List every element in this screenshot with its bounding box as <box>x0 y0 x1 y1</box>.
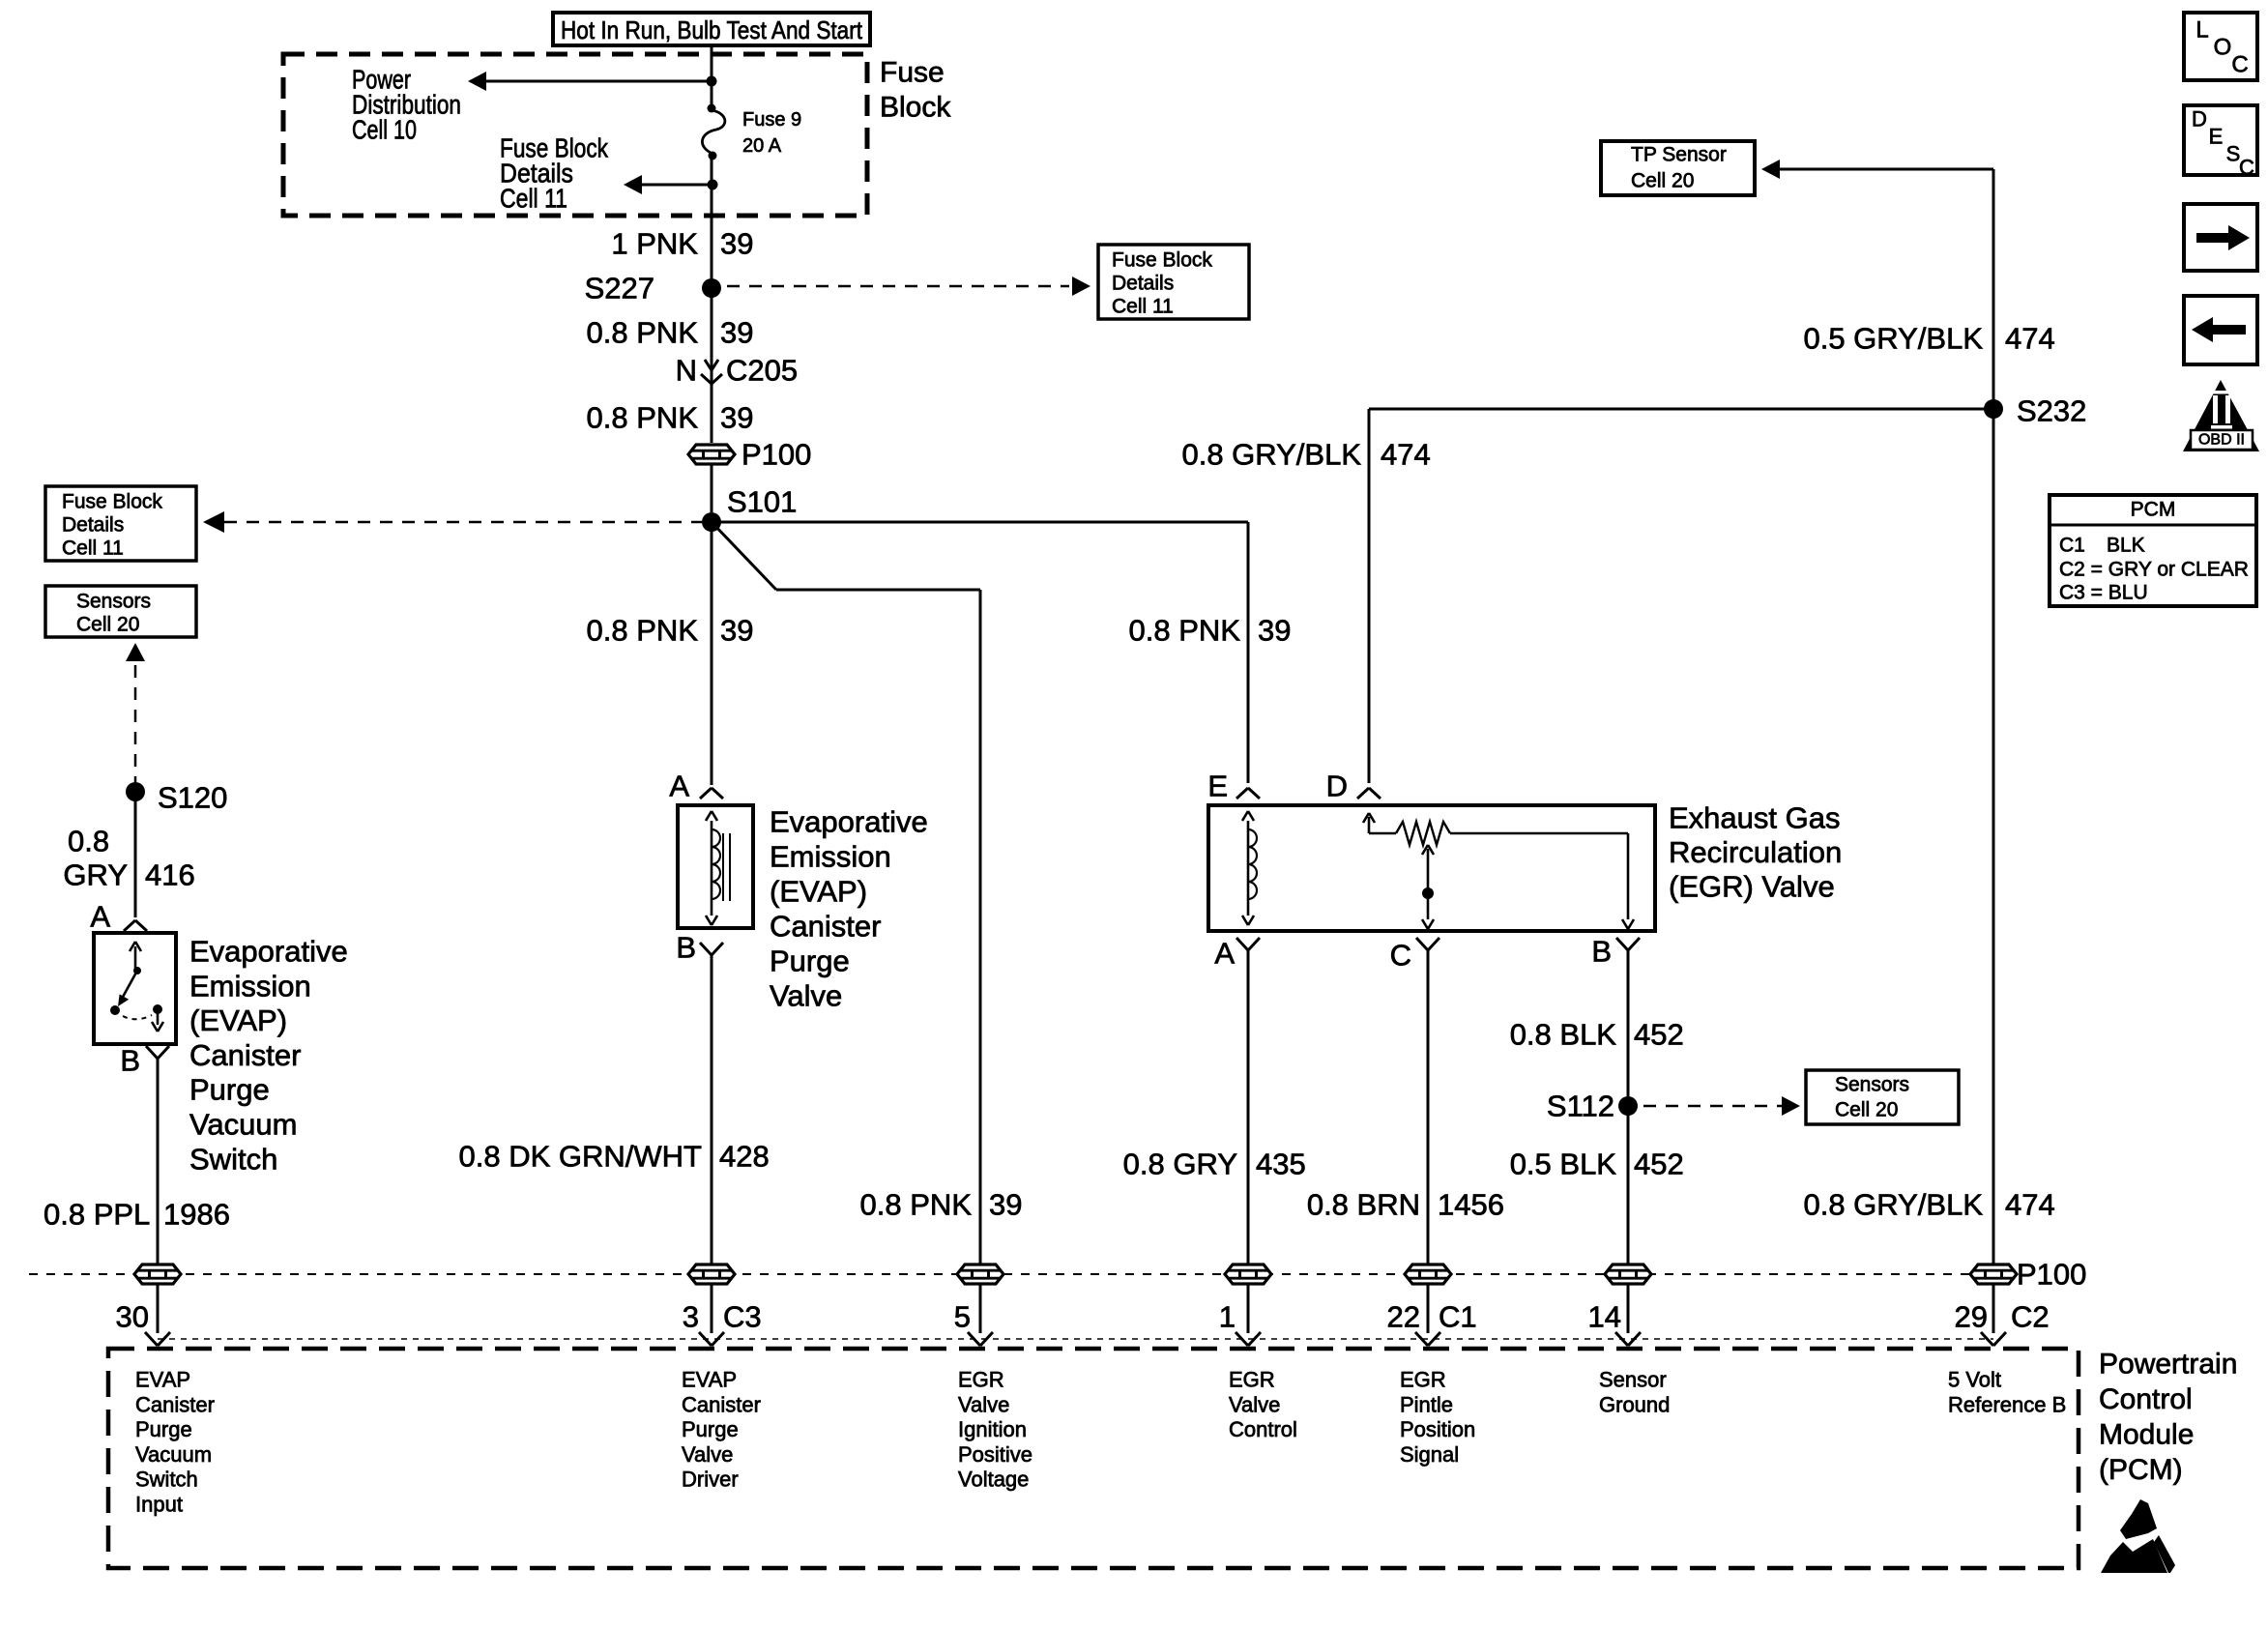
svg-text:Sensors: Sensors <box>1835 1074 1909 1096</box>
svg-text:Emission: Emission <box>770 840 891 874</box>
svg-text:Canister: Canister <box>189 1038 301 1072</box>
svg-text:3: 3 <box>683 1300 699 1334</box>
svg-text:C: C <box>2239 156 2254 180</box>
svg-text:C1: C1 <box>1439 1300 1477 1334</box>
svg-text:Block: Block <box>880 92 951 124</box>
svg-text:Signal: Signal <box>1400 1442 1459 1467</box>
svg-text:Valve: Valve <box>1229 1392 1280 1416</box>
svg-text:EGR: EGR <box>1229 1368 1275 1392</box>
svg-text:C2: C2 <box>2011 1300 2050 1334</box>
svg-text:EVAP: EVAP <box>682 1368 737 1392</box>
svg-text:S232: S232 <box>2017 394 2086 428</box>
svg-text:Position: Position <box>1400 1417 1475 1441</box>
svg-text:5 Volt: 5 Volt <box>1948 1368 2001 1392</box>
svg-text:A: A <box>90 900 110 934</box>
svg-text:0.8 PNK: 0.8 PNK <box>860 1188 973 1222</box>
svg-text:D: D <box>1326 770 1348 803</box>
svg-text:0.8 PNK: 0.8 PNK <box>587 316 699 350</box>
svg-text:452: 452 <box>1634 1018 1684 1052</box>
svg-text:EVAP: EVAP <box>135 1368 190 1392</box>
svg-text:39: 39 <box>720 614 753 648</box>
svg-text:S101: S101 <box>727 485 797 519</box>
svg-text:0.5 GRY/BLK: 0.5 GRY/BLK <box>1803 322 1983 356</box>
svg-text:B: B <box>1591 935 1612 969</box>
svg-text:Cell 20: Cell 20 <box>76 614 139 636</box>
svg-text:Voltage: Voltage <box>958 1468 1029 1492</box>
svg-text:Purge: Purge <box>135 1417 192 1441</box>
svg-text:(EVAP): (EVAP) <box>770 875 867 909</box>
svg-text:(PCM): (PCM) <box>2099 1454 2183 1486</box>
svg-text:S227: S227 <box>585 272 654 305</box>
svg-text:Ignition: Ignition <box>958 1417 1027 1441</box>
svg-text:Purge: Purge <box>770 945 850 978</box>
svg-text:EGR: EGR <box>958 1368 1004 1392</box>
svg-text:PCM: PCM <box>2131 499 2176 521</box>
svg-text:Vacuum: Vacuum <box>135 1442 212 1467</box>
svg-text:Valve: Valve <box>770 979 842 1013</box>
svg-text:474: 474 <box>1381 438 1431 472</box>
svg-text:Purge: Purge <box>189 1073 270 1107</box>
svg-text:39: 39 <box>720 316 753 350</box>
svg-text:E: E <box>1207 770 1228 803</box>
svg-text:P100: P100 <box>2017 1258 2086 1292</box>
svg-text:0.8 PPL: 0.8 PPL <box>44 1198 150 1232</box>
svg-text:B: B <box>676 931 696 965</box>
svg-text:Valve: Valve <box>682 1442 733 1467</box>
svg-text:Evaporative: Evaporative <box>189 935 348 969</box>
svg-text:Positive: Positive <box>958 1442 1032 1467</box>
svg-text:435: 435 <box>1256 1148 1306 1181</box>
svg-text:Canister: Canister <box>770 910 881 944</box>
svg-text:Canister: Canister <box>135 1392 215 1416</box>
svg-text:Recirculation: Recirculation <box>1669 835 1842 869</box>
svg-text:Details: Details <box>62 514 124 537</box>
svg-text:Switch: Switch <box>135 1468 198 1492</box>
svg-text:Cell 20: Cell 20 <box>1835 1099 1898 1121</box>
svg-text:C: C <box>2231 52 2248 78</box>
svg-text:EGR: EGR <box>1400 1368 1446 1392</box>
svg-text:Control: Control <box>2099 1383 2193 1415</box>
svg-text:Pintle: Pintle <box>1400 1392 1453 1416</box>
svg-text:C: C <box>1390 939 1411 973</box>
svg-text:0.8 PNK: 0.8 PNK <box>587 401 699 435</box>
svg-text:1456: 1456 <box>1438 1188 1504 1222</box>
svg-text:Sensors: Sensors <box>76 591 151 613</box>
svg-text:N: N <box>676 354 697 388</box>
svg-text:39: 39 <box>1258 614 1291 648</box>
svg-text:Valve: Valve <box>958 1392 1009 1416</box>
svg-text:A: A <box>1214 937 1235 971</box>
svg-text:C205: C205 <box>726 354 798 388</box>
svg-text:OBD II: OBD II <box>2198 432 2245 449</box>
svg-text:474: 474 <box>2005 1188 2055 1222</box>
svg-text:5: 5 <box>954 1300 971 1334</box>
svg-text:Cell 11: Cell 11 <box>500 184 567 214</box>
svg-text:39: 39 <box>989 1188 1022 1222</box>
svg-text:1: 1 <box>1219 1300 1236 1334</box>
svg-text:C3 = BLU: C3 = BLU <box>2059 582 2148 604</box>
svg-text:Exhaust Gas: Exhaust Gas <box>1669 801 1840 835</box>
svg-text:452: 452 <box>1634 1148 1684 1181</box>
svg-text:E: E <box>2209 125 2224 149</box>
svg-text:Cell 11: Cell 11 <box>1112 296 1174 318</box>
svg-text:0.8 GRY: 0.8 GRY <box>1123 1148 1237 1181</box>
svg-text:Cell 20: Cell 20 <box>1631 170 1694 192</box>
svg-text:30: 30 <box>116 1300 149 1334</box>
svg-text:C3: C3 <box>723 1300 762 1334</box>
svg-text:TP Sensor: TP Sensor <box>1631 144 1727 166</box>
svg-text:0.8 BRN: 0.8 BRN <box>1307 1188 1420 1222</box>
svg-text:0.8 GRY/BLK: 0.8 GRY/BLK <box>1803 1188 1983 1222</box>
svg-text:22: 22 <box>1387 1300 1420 1334</box>
svg-text:Fuse Block: Fuse Block <box>1112 249 1212 272</box>
svg-text:Switch: Switch <box>189 1142 277 1176</box>
svg-text:A: A <box>669 770 689 803</box>
svg-text:0.8: 0.8 <box>68 825 109 858</box>
svg-text:0.8 PNK: 0.8 PNK <box>1129 614 1241 648</box>
svg-text:14: 14 <box>1588 1300 1621 1334</box>
svg-text:0.8 PNK: 0.8 PNK <box>587 614 699 648</box>
svg-text:Ground: Ground <box>1599 1392 1670 1416</box>
svg-text:1986: 1986 <box>163 1198 230 1232</box>
svg-text:Canister: Canister <box>682 1392 761 1416</box>
svg-text:(EGR) Valve: (EGR) Valve <box>1669 870 1835 904</box>
svg-text:0.8 DK GRN/WHT: 0.8 DK GRN/WHT <box>459 1140 703 1174</box>
svg-text:S112: S112 <box>1547 1090 1614 1123</box>
svg-text:Driver: Driver <box>682 1468 739 1492</box>
svg-text:39: 39 <box>720 227 753 261</box>
svg-text:Fuse Block: Fuse Block <box>62 491 162 513</box>
svg-text:474: 474 <box>2005 322 2055 356</box>
svg-text:0.5 BLK: 0.5 BLK <box>1510 1148 1617 1181</box>
svg-text:Details: Details <box>1112 273 1174 295</box>
svg-text:Cell 10: Cell 10 <box>352 115 417 145</box>
svg-text:Evaporative: Evaporative <box>770 805 928 839</box>
svg-text:Hot In Run, Bulb Test And Star: Hot In Run, Bulb Test And Start <box>561 15 863 44</box>
svg-text:416: 416 <box>145 858 195 892</box>
svg-text:S120: S120 <box>158 781 227 815</box>
svg-text:Reference B: Reference B <box>1948 1392 2066 1416</box>
svg-text:BLK: BLK <box>2107 535 2145 557</box>
svg-text:(EVAP): (EVAP) <box>189 1003 287 1037</box>
svg-text:Input: Input <box>135 1493 183 1517</box>
svg-text:428: 428 <box>719 1140 770 1174</box>
svg-text:0.8 GRY/BLK: 0.8 GRY/BLK <box>1181 438 1361 472</box>
svg-text:O: O <box>2214 35 2232 61</box>
svg-text:Cell 11: Cell 11 <box>62 538 124 560</box>
svg-text:0.8 BLK: 0.8 BLK <box>1510 1018 1617 1052</box>
svg-text:20 A: 20 A <box>742 135 782 157</box>
svg-text:Fuse: Fuse <box>880 57 945 89</box>
svg-text:Control: Control <box>1229 1417 1297 1441</box>
svg-text:Emission: Emission <box>189 969 311 1003</box>
svg-text:Vacuum: Vacuum <box>189 1108 297 1142</box>
svg-text:Sensor: Sensor <box>1599 1368 1667 1392</box>
svg-text:C1: C1 <box>2059 535 2085 557</box>
svg-text:B: B <box>120 1044 140 1078</box>
svg-text:L: L <box>2195 17 2208 44</box>
svg-text:39: 39 <box>720 401 753 435</box>
svg-text:Fuse 9: Fuse 9 <box>742 109 801 131</box>
svg-text:C2 = GRY or CLEAR: C2 = GRY or CLEAR <box>2059 559 2249 581</box>
svg-text:29: 29 <box>1955 1300 1988 1334</box>
svg-text:Powertrain: Powertrain <box>2099 1349 2237 1381</box>
svg-text:D: D <box>2192 107 2207 131</box>
svg-text:Module: Module <box>2099 1419 2194 1451</box>
svg-text:1 PNK: 1 PNK <box>611 227 698 261</box>
svg-text:Purge: Purge <box>682 1417 739 1441</box>
svg-text:P100: P100 <box>741 438 811 472</box>
svg-text:GRY: GRY <box>63 858 128 892</box>
